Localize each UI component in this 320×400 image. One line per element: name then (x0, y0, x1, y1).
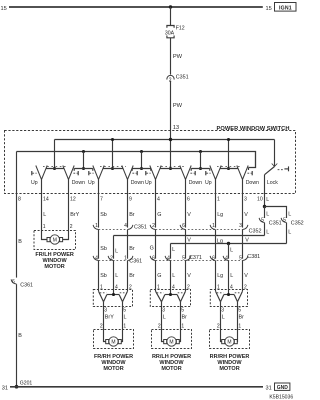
svg-text:6: 6 (182, 223, 185, 229)
svg-text:L: L (172, 273, 175, 279)
svg-text:15: 15 (266, 6, 272, 12)
svg-text:1: 1 (238, 324, 241, 330)
svg-text:Lock: Lock (267, 180, 278, 186)
svg-text:4: 4 (124, 223, 127, 229)
svg-text:L: L (115, 248, 118, 254)
svg-text:C352: C352 (291, 220, 304, 226)
svg-text:Br: Br (129, 212, 135, 218)
svg-text:12: 12 (70, 197, 76, 203)
svg-text:C361: C361 (20, 282, 33, 288)
svg-text:Br: Br (239, 315, 245, 321)
svg-text:C351: C351 (269, 220, 282, 226)
svg-text:C361: C361 (129, 259, 142, 265)
svg-text:BrY: BrY (105, 315, 114, 321)
svg-text:GND: GND (277, 385, 289, 391)
svg-text:G201: G201 (20, 380, 33, 386)
svg-text:2: 2 (100, 324, 103, 330)
svg-text:13: 13 (173, 125, 179, 131)
svg-text:10: 10 (257, 197, 263, 203)
svg-text:C352: C352 (249, 228, 262, 234)
svg-text:31: 31 (266, 386, 272, 392)
svg-text:Lg: Lg (217, 273, 223, 279)
svg-text:Sb: Sb (100, 273, 107, 279)
svg-text:5: 5 (283, 218, 286, 224)
svg-text:31: 31 (2, 386, 8, 392)
svg-text:Up: Up (88, 180, 95, 186)
svg-text:2: 2 (70, 224, 73, 230)
svg-text:Sb: Sb (100, 246, 107, 252)
svg-text:1: 1 (123, 324, 126, 330)
svg-text:FR/LH POWER: FR/LH POWER (35, 252, 74, 258)
svg-text:B: B (18, 239, 22, 245)
svg-text:1: 1 (43, 224, 46, 230)
svg-text:3: 3 (221, 308, 224, 314)
svg-text:6: 6 (12, 279, 15, 285)
svg-text:V: V (187, 237, 191, 243)
svg-text:PW: PW (173, 103, 183, 109)
svg-text:4: 4 (157, 197, 160, 203)
svg-text:5: 5 (123, 308, 126, 314)
svg-text:2: 2 (217, 324, 220, 330)
svg-text:L: L (266, 229, 269, 235)
svg-text:F12: F12 (176, 25, 185, 31)
svg-text:L: L (43, 212, 46, 218)
svg-text:C351: C351 (176, 74, 189, 80)
svg-text:Up: Up (205, 180, 212, 186)
svg-text:L: L (230, 273, 233, 279)
svg-text:Down: Down (131, 180, 144, 186)
svg-text:M: M (169, 340, 173, 346)
svg-text:L: L (288, 211, 291, 217)
svg-text:1: 1 (217, 197, 220, 203)
svg-text:M: M (227, 340, 231, 346)
svg-text:POWER WINDOW SWITCH: POWER WINDOW SWITCH (217, 126, 290, 132)
svg-text:3: 3 (162, 308, 165, 314)
svg-text:Down: Down (189, 180, 202, 186)
svg-text:B: B (18, 333, 22, 339)
svg-text:Br: Br (129, 246, 135, 252)
svg-text:L: L (266, 211, 269, 217)
svg-text:V: V (187, 212, 191, 218)
svg-text:L: L (266, 197, 269, 203)
svg-text:BrY: BrY (70, 212, 79, 218)
svg-text:L: L (163, 315, 166, 321)
svg-text:L: L (222, 315, 225, 321)
svg-text:M: M (53, 238, 57, 244)
svg-text:L: L (172, 247, 175, 253)
svg-text:C351: C351 (134, 225, 147, 231)
svg-text:30A: 30A (165, 30, 175, 36)
svg-text:L: L (230, 248, 233, 254)
svg-text:Up: Up (31, 180, 38, 186)
svg-text:V: V (244, 212, 248, 218)
svg-text:M: M (111, 340, 115, 346)
svg-text:1: 1 (212, 223, 215, 229)
svg-text:MOTOR: MOTOR (219, 366, 239, 372)
svg-text:MOTOR: MOTOR (103, 366, 123, 372)
svg-text:G: G (157, 273, 161, 279)
svg-text:Up: Up (145, 180, 152, 186)
svg-text:2: 2 (158, 324, 161, 330)
svg-text:L: L (288, 229, 291, 235)
svg-text:Down: Down (246, 180, 259, 186)
svg-text:1: 1 (181, 324, 184, 330)
svg-text:6: 6 (187, 197, 190, 203)
svg-text:1: 1 (95, 223, 98, 229)
svg-text:L: L (124, 315, 127, 321)
svg-text:IGN1: IGN1 (279, 6, 292, 12)
svg-text:C371: C371 (189, 255, 202, 261)
svg-text:G: G (157, 212, 161, 218)
svg-text:G: G (150, 245, 154, 251)
svg-text:8: 8 (18, 197, 21, 203)
svg-text:V: V (245, 237, 249, 243)
svg-text:7: 7 (100, 197, 103, 203)
svg-text:Br: Br (182, 315, 188, 321)
svg-text:3: 3 (104, 308, 107, 314)
svg-text:K5B15036: K5B15036 (269, 395, 293, 400)
svg-text:5: 5 (261, 218, 264, 224)
svg-text:Lg: Lg (217, 212, 223, 218)
svg-text:Sb: Sb (100, 212, 107, 218)
svg-text:15: 15 (1, 6, 7, 12)
svg-text:MOTOR: MOTOR (44, 264, 64, 270)
svg-text:5: 5 (181, 308, 184, 314)
svg-text:2: 2 (152, 223, 155, 229)
svg-text:6: 6 (152, 256, 155, 262)
svg-text:L: L (115, 273, 118, 279)
svg-text:C381: C381 (247, 254, 260, 260)
svg-text:Br: Br (129, 273, 135, 279)
svg-text:4: 4 (95, 256, 98, 262)
svg-text:MOTOR: MOTOR (161, 366, 181, 372)
svg-text:PW: PW (173, 54, 183, 60)
svg-text:5: 5 (238, 308, 241, 314)
svg-text:V: V (244, 273, 248, 279)
svg-text:Down: Down (72, 180, 85, 186)
svg-text:3: 3 (239, 223, 242, 229)
svg-text:14: 14 (43, 197, 49, 203)
svg-text:9: 9 (129, 197, 132, 203)
svg-text:3: 3 (244, 197, 247, 203)
svg-text:V: V (187, 273, 191, 279)
